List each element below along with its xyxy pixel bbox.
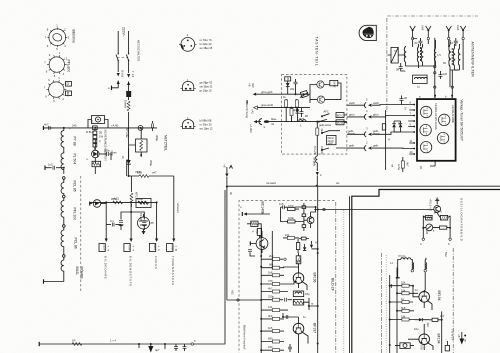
coupling stub R: [424, 258, 427, 290]
coil L6: [313, 156, 318, 171]
pot Pt1: [395, 343, 414, 349]
tick mark: [246, 100, 248, 103]
cap c31: [450, 38, 458, 46]
box vert bl2: [255, 228, 262, 238]
input coil Lt: [396, 254, 411, 278]
dashed switch link: [117, 57, 128, 59]
res row5: [261, 279, 294, 286]
cap stack cs1: [302, 203, 306, 214]
wire +A51: [101, 197, 120, 204]
wire gelb-blau out: [321, 148, 347, 151]
tube T5: [420, 142, 431, 153]
box filter F10: [391, 47, 398, 63]
logo emblem: [359, 25, 376, 40]
resistor R11: [137, 197, 148, 204]
label PL504 boxes: [66, 82, 72, 97]
tube T2: [439, 114, 450, 125]
diode D11: [394, 121, 402, 132]
vertical pair line: [349, 196, 351, 353]
coil L11: [417, 44, 418, 66]
res row10: [261, 326, 284, 333]
tube socket V1 Bildrohre: [45, 24, 70, 51]
resistor R30: [401, 157, 409, 172]
tube socket V3 PL504: [44, 76, 69, 103]
wire tuner bottom: [430, 161, 435, 166]
box UKW: [330, 80, 338, 88]
wire mains N: [128, 31, 130, 54]
connector K2: [365, 109, 372, 119]
cap stack cs3: [302, 219, 306, 232]
arrow +B ton: [457, 332, 466, 345]
tube T4: [437, 132, 448, 143]
diode D6: [296, 108, 300, 122]
fuse Si2: [127, 71, 135, 85]
SECTION: mains 220V: [108, 27, 141, 128]
box b40: [299, 237, 309, 240]
wire down from rectifier: [127, 148, 129, 176]
node on bus: [63, 127, 65, 129]
wire to terminal a: [112, 81, 119, 88]
coil L10: [404, 46, 405, 66]
cap c50: [279, 202, 288, 214]
box BAND B: [336, 120, 344, 125]
gnd arrow b1: [148, 343, 153, 353]
arrow +B: [223, 164, 233, 177]
SECTION: voltage terminals row: [90, 197, 178, 287]
arrow in2: [251, 103, 311, 114]
tube T1: [420, 106, 431, 117]
connector jack 2: [427, 35, 429, 44]
capacitor C1: [43, 123, 53, 131]
tuner box: [417, 99, 456, 161]
node: [63, 255, 66, 258]
dashdot border antfilter: [386, 18, 388, 112]
agc rail vertical: [386, 110, 390, 170]
tube socket V2 PFL200: [44, 51, 69, 78]
wire mains L: [117, 31, 119, 54]
wires antfilter bottom: [388, 46, 464, 87]
res rt3: [390, 297, 413, 304]
filter block: [126, 91, 131, 97]
SECTION: DIN sockets: [179, 33, 213, 130]
SECTION: oscillator test circuit: [420, 198, 463, 246]
core line T1: [420, 47, 422, 62]
box tuning VHF: [327, 135, 336, 145]
arrow A2 out: [310, 241, 319, 251]
if bus vertical: [260, 228, 262, 353]
cap c21: [300, 108, 304, 117]
if amp Q5 BF197: [283, 317, 308, 344]
terminal left: [38, 342, 40, 346]
box component PSU: [136, 199, 151, 208]
box BAND C: [336, 113, 344, 118]
res row3: [261, 263, 284, 270]
res row2: [261, 254, 286, 261]
DIN socket Bu1: [179, 33, 197, 51]
rail tz1: [389, 275, 391, 353]
bottom ground bus: [39, 343, 225, 345]
capacitor C11: [119, 202, 132, 238]
node: [105, 201, 107, 203]
dashed box tasten: [282, 75, 347, 154]
coil box L16: [413, 75, 428, 88]
node: [63, 177, 66, 180]
SECTION: bottom bus: [39, 339, 225, 353]
antenna UHF1: [446, 26, 451, 35]
dashdot top antfilter: [387, 15, 478, 17]
meter M1: [426, 224, 435, 233]
fuse Si1: [117, 70, 125, 84]
diode D5: [285, 77, 291, 94]
dotted border tonzf: [385, 255, 387, 353]
SECTION: heater chain: [44, 128, 120, 292]
switch AFC: [321, 110, 330, 118]
wire: [128, 82, 130, 92]
transistor Q20: [434, 206, 443, 214]
res rt6 box: [429, 314, 445, 321]
node m: [304, 298, 318, 310]
arrow in3 connector: [249, 117, 347, 133]
bus y300 left: [227, 299, 261, 301]
resistor R2 sicherungswiderstand: [93, 126, 104, 150]
resistor R21b: [295, 99, 298, 112]
resistor R40: [437, 226, 450, 229]
SECTION: ton-zf: [382, 248, 467, 353]
terminal a: [108, 86, 112, 90]
dashed section split: [80, 176, 82, 292]
electrolytic on bus: [138, 126, 143, 131]
connector K4: [365, 140, 372, 150]
wire top bus: [43, 127, 157, 129]
rail tz2: [396, 268, 398, 353]
res rt5: [390, 315, 415, 322]
wire mains L lower: [117, 61, 119, 73]
coil L17: [453, 44, 459, 70]
cap c30: [413, 38, 423, 46]
res rt2: [397, 288, 418, 295]
coil L14: [449, 40, 450, 70]
coil L13: [434, 40, 435, 66]
label Bu1 pins: [200, 38, 213, 50]
connector K1: [365, 98, 372, 108]
node: [63, 225, 66, 228]
res rb1: [72, 339, 82, 346]
label Bu2 pins: [200, 81, 214, 93]
filter box FB2: [293, 299, 303, 305]
bus rot-weiss: [226, 181, 500, 187]
heater coil chain: [61, 128, 64, 174]
osc terminals: [420, 238, 451, 246]
agc transistor Q3: [250, 231, 268, 253]
box zig bl1: [247, 221, 261, 228]
rail tz3: [441, 311, 443, 353]
wire drop 225V: [105, 202, 107, 238]
main down line with junctions: [434, 38, 436, 98]
filter box FB1: [293, 291, 303, 297]
antenna VHF2: [426, 26, 431, 35]
diode dv1: [303, 244, 306, 251]
ground arrow 2: [316, 172, 322, 186]
capacitor C6: [45, 163, 65, 170]
wire if right rail: [317, 186, 319, 353]
tuner left pins: [408, 104, 415, 155]
res row8: [261, 305, 288, 312]
switch S1b: [126, 53, 129, 61]
coil L12: [421, 44, 422, 66]
label BILD-ROHRE: [75, 267, 84, 280]
transistor Qt2 BF194: [408, 324, 433, 350]
label +B 33V: [248, 83, 256, 88]
res row1: [283, 233, 299, 239]
res row11: [261, 337, 284, 344]
wire weiss line: [347, 101, 409, 105]
thyristor D1: [92, 140, 100, 163]
resistor R21: [290, 107, 293, 122]
res r52: [281, 214, 300, 223]
wire to transformer: [128, 112, 130, 128]
res row12: [261, 345, 284, 352]
capacitor C3: [99, 149, 111, 161]
transistor Q psu: [90, 200, 101, 208]
rail two: [271, 231, 273, 270]
terminal 225V: [99, 239, 110, 253]
box BV: [382, 124, 385, 130]
transistor Q10: [317, 81, 324, 88]
if amp Q1: [304, 212, 314, 228]
node: [94, 127, 96, 129]
switch S1a: [116, 53, 119, 61]
choke L1: [124, 97, 131, 111]
cap stack cs2: [300, 214, 306, 222]
antenna UHF2: [460, 26, 465, 35]
terminal 270V: [167, 239, 178, 253]
bus video out: [314, 208, 433, 210]
antenna VHF1: [410, 26, 415, 35]
capacitor C13: [106, 219, 121, 227]
second down line: [451, 70, 453, 98]
dashdot border right tonzf: [452, 248, 454, 353]
rectifier D2: [126, 128, 130, 176]
input terminal: [242, 212, 270, 216]
res vert rv1: [296, 239, 299, 253]
terminal 475V: [124, 239, 135, 253]
SECTION: long bus lines: [226, 181, 500, 353]
res row6: [261, 287, 288, 294]
resistor R10: [111, 197, 123, 204]
node: [130, 201, 132, 203]
cap c51: [248, 250, 255, 256]
ground mark: [435, 198, 439, 205]
SECTION: tuner: [347, 95, 464, 173]
dashdot border tonzf: [381, 253, 383, 353]
switch contact 3: [321, 131, 340, 134]
resistor R5 horizontal: [128, 171, 174, 178]
transistor Qt1 BF194: [413, 286, 432, 310]
connector jack 4: [462, 35, 464, 47]
capacitor C12: [130, 211, 147, 230]
wire gelb line: [347, 144, 409, 149]
capacitor C20: [294, 79, 298, 95]
resistor R20: [285, 99, 288, 122]
caps row: [396, 63, 405, 72]
cap c33: [439, 71, 448, 79]
core line T2: [451, 48, 453, 66]
wires tasten internal: [310, 83, 341, 103]
res r51: [288, 204, 316, 211]
NTC R4: [130, 176, 138, 207]
tick cb0: [138, 343, 140, 348]
arrow in1: [253, 90, 310, 96]
bottom row bits: [288, 340, 299, 353]
wire band out: [344, 115, 347, 122]
cap cb1: [174, 344, 178, 351]
label Bu3 pins: [200, 119, 214, 131]
wire +B branch: [225, 177, 227, 344]
if amp Q4 BF196: [283, 267, 307, 290]
dotted border right2: [343, 210, 345, 353]
chain end wire: [44, 281, 64, 283]
diode D10: [392, 121, 396, 132]
pot P1: [300, 91, 308, 98]
res rt4: [397, 306, 414, 313]
res row7: [261, 295, 292, 302]
transistor Q11: [317, 96, 324, 103]
wire drop 800V: [156, 201, 158, 238]
SECTION: tasten-teil: [245, 25, 376, 185]
tick cb3: [164, 343, 166, 349]
SECTION: power supply NETZTEIL: [43, 116, 232, 344]
connector jack 3: [448, 35, 450, 47]
dashed border bildzf: [239, 201, 334, 353]
smoothing block C4: [129, 128, 147, 157]
node: [63, 195, 66, 198]
wire transformer secondary down: [173, 176, 175, 239]
wire gelb-braun line: [347, 129, 409, 136]
hatch coil Lh1: [426, 215, 433, 220]
res row4: [261, 270, 284, 277]
coil hatch ch1: [296, 253, 301, 268]
cap ct1: [390, 284, 392, 288]
connector jack 1: [411, 35, 413, 47]
coil L5: [297, 117, 306, 128]
cap C5: [152, 121, 154, 131]
fuseholder F2: [88, 116, 108, 128]
cap cb2: [183, 344, 187, 351]
hatch coil Lh2: [440, 215, 447, 220]
wire drop 270V: [173, 239, 175, 241]
bus B with step: [352, 190, 500, 353]
res rt1: [390, 281, 414, 288]
switch band B: [318, 119, 331, 127]
SECTION: bild-zf: [227, 186, 344, 353]
res row9: [261, 314, 284, 321]
junction dot q1: [311, 206, 317, 212]
SECTION: scattered value labels: [68, 87, 448, 331]
coupling stub L: [411, 260, 414, 272]
DIN socket Bu2: [181, 78, 196, 90]
caps top tuner: [400, 96, 404, 105]
wire mains N lower: [128, 61, 130, 74]
coil L15: [458, 44, 459, 70]
SECTION: top-left tube socket diagrams: [44, 24, 76, 103]
connector K3: [365, 127, 372, 137]
DIN socket Bu3: [181, 116, 196, 128]
resistor R22: [313, 121, 324, 156]
SECTION: antenna filter: [387, 18, 475, 112]
tuner top pins: [434, 95, 453, 99]
box bt1: [445, 341, 449, 351]
resistor R3 box: [86, 158, 101, 174]
dashdot border right: [335, 202, 337, 353]
diode Dt1: [415, 318, 429, 321]
terminal end: [43, 279, 45, 283]
tube V4 PCL85: [138, 214, 154, 235]
terminal 800V: [149, 239, 160, 253]
osc rails: [422, 206, 451, 239]
cap c55: [282, 313, 288, 319]
tube T3: [420, 124, 431, 135]
wire gruen line: [347, 113, 409, 117]
wire hv bus: [90, 201, 157, 203]
